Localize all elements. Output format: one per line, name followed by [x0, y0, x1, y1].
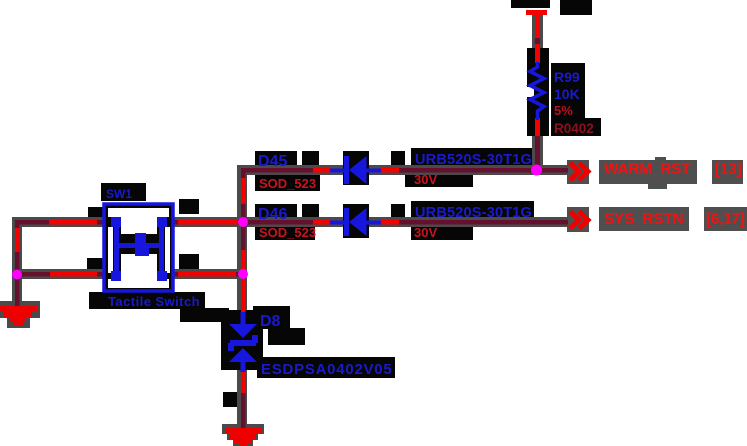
svg-text:5%: 5%	[554, 103, 573, 118]
svg-text:D45: D45	[258, 153, 287, 170]
svg-text:ESDPSA0402V05: ESDPSA0402V05	[261, 361, 393, 378]
svg-text:10K: 10K	[554, 86, 580, 102]
svg-text:D8: D8	[260, 313, 281, 330]
svg-text:Tactile Switch: Tactile Switch	[108, 294, 200, 309]
svg-text:R0402: R0402	[554, 121, 594, 136]
svg-text:30V: 30V	[414, 225, 437, 240]
svg-text:SOD_523: SOD_523	[259, 176, 316, 191]
svg-text:R99: R99	[554, 69, 580, 85]
svg-text:[13]: [13]	[715, 161, 742, 178]
svg-text:URB520S-30T1G: URB520S-30T1G	[415, 205, 532, 221]
svg-text:SOD_523: SOD_523	[259, 225, 316, 240]
svg-text:URB520S-30T1G: URB520S-30T1G	[415, 152, 532, 168]
svg-text:WARM_RST: WARM_RST	[604, 161, 691, 178]
svg-text:SW1: SW1	[106, 187, 132, 201]
svg-text:SYS_RSTN: SYS_RSTN	[604, 211, 684, 228]
svg-text:[6,17]: [6,17]	[706, 211, 745, 228]
svg-text:30V: 30V	[414, 172, 437, 187]
svg-text:D46: D46	[258, 206, 287, 223]
